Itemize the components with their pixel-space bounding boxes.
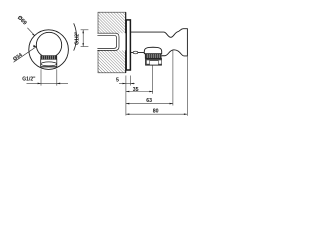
svg-text:G1/2": G1/2" <box>75 31 81 45</box>
holder front-view arc (right of circle) <box>74 23 77 50</box>
dim row 35 <box>126 87 153 93</box>
set screw oval under body <box>133 51 138 54</box>
escutcheon (side view) <box>126 20 130 70</box>
wall front face line <box>125 12 127 73</box>
svg-text:63: 63 <box>146 98 152 104</box>
elbow inside wall <box>97 35 116 48</box>
dia69 label <box>16 15 35 36</box>
dim row 5 <box>116 76 135 86</box>
dia34 label <box>12 45 36 63</box>
outlet knurl band <box>145 54 161 58</box>
dim row 63 <box>126 51 173 106</box>
body bottom line left of dome <box>130 52 144 54</box>
inner circle (body front view) <box>36 32 61 57</box>
dim row 80 <box>126 56 187 116</box>
nut (front view hose nut below body) <box>40 55 57 66</box>
outlet centerline extension <box>152 66 154 94</box>
svg-text:35: 35 <box>133 87 139 93</box>
shared wall-face extension line <box>125 76 127 116</box>
outlet dome <box>144 47 161 53</box>
G1/2 bottom label and dimension <box>22 69 68 85</box>
outlet lower box <box>146 58 162 65</box>
body and holder profile (side view) <box>130 29 187 56</box>
G1/2 side label and dimension <box>75 30 89 47</box>
outer circle (escutcheon front view) <box>29 30 69 70</box>
svg-text:G1/2": G1/2" <box>22 76 36 82</box>
wall section (hatched) <box>98 12 126 73</box>
svg-text:80: 80 <box>153 108 159 114</box>
svg-text:5: 5 <box>116 77 119 83</box>
wall cutout (through hole, unhatched) <box>97 33 126 50</box>
